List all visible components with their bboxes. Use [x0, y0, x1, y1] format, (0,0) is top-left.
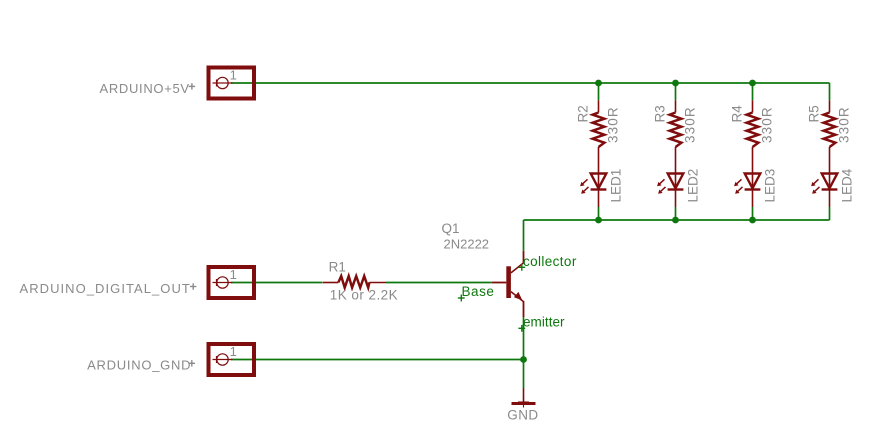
wire collector vertical	[523, 220, 525, 251]
junction bottom rail branch 2	[672, 217, 679, 224]
svg-text:LED4: LED4	[840, 168, 855, 202]
svg-text:emitter: emitter	[523, 314, 565, 329]
svg-text:330R: 330R	[683, 106, 698, 143]
pin 1 label of ARDUINO+5V	[230, 68, 237, 83]
wire branch 3 top stub	[752, 83, 754, 100]
label R1 name	[329, 259, 346, 274]
resistor R4	[747, 100, 759, 173]
pin label emitter	[518, 314, 565, 331]
resistor R1	[323, 276, 386, 288]
pin label collector	[518, 254, 576, 271]
LED LED1	[580, 174, 606, 208]
wire branch 2 top stub	[675, 83, 677, 100]
svg-text:330R: 330R	[760, 106, 775, 143]
wire gnd net: pad to junction	[231, 359, 524, 361]
svg-text:collector: collector	[523, 254, 577, 269]
net label ARDUINO+5V	[99, 81, 195, 96]
junction top rail branch 2	[672, 80, 679, 87]
net label ARDUINO_GND	[87, 358, 195, 373]
svg-text:330R: 330R	[837, 106, 852, 143]
pin label Base	[458, 284, 495, 301]
wire base net: pad to R1	[231, 282, 322, 284]
LED LED2	[657, 174, 683, 208]
wire branch 3 bottom stub	[752, 207, 754, 220]
svg-text:LED2: LED2	[686, 169, 701, 203]
junction bottom rail branch 3	[749, 217, 756, 224]
LED LED4	[811, 174, 837, 208]
svg-text:R5: R5	[807, 105, 822, 122]
pin 1 label of ARDUINO_GND	[230, 344, 237, 359]
junction top rail branch 1	[595, 80, 602, 87]
LED LED3	[734, 174, 760, 208]
connector pad ARDUINO+5V	[209, 68, 255, 99]
junction bottom rail branch 1	[595, 217, 602, 224]
junction top rail branch 3	[749, 80, 756, 87]
ground GND symbol	[512, 388, 536, 408]
svg-text:Q1: Q1	[442, 221, 460, 236]
label LED3	[763, 169, 778, 203]
svg-text:R3: R3	[653, 105, 668, 122]
label R5 name	[807, 105, 822, 122]
svg-text:1K or 2.2K: 1K or 2.2K	[330, 288, 398, 303]
label LED2	[686, 169, 701, 203]
resistor R5	[824, 100, 836, 173]
svg-text:1: 1	[230, 344, 237, 359]
svg-text:330R: 330R	[606, 106, 621, 143]
label GND	[507, 408, 538, 423]
pin 1 label of ARDUINO_DIGITAL_OUT	[230, 267, 237, 282]
svg-text:Base: Base	[462, 284, 495, 299]
label R3 value 330R	[683, 106, 698, 143]
svg-text:ARDUINO_DIGITAL_OUT: ARDUINO_DIGITAL_OUT	[19, 281, 190, 296]
resistor R3	[670, 100, 682, 173]
wire +5V top rail	[231, 82, 830, 84]
label R1 value "1K or 2.2K"	[330, 288, 398, 303]
wire branch 4 top stub	[829, 83, 831, 100]
wire branch 4 bottom stub	[829, 207, 831, 220]
label R5 value 330R	[837, 106, 852, 143]
label LED1	[609, 169, 624, 203]
wire emitter vertical	[523, 317, 525, 388]
label R2 value 330R	[606, 106, 621, 143]
label Q1 name	[442, 221, 460, 236]
connector pad ARDUINO_GND	[209, 344, 255, 375]
svg-text:LED3: LED3	[763, 169, 778, 203]
label R2 name	[576, 105, 591, 122]
label Q1 value 2N2222	[444, 237, 490, 252]
label R4 value 330R	[760, 106, 775, 143]
svg-text:GND: GND	[507, 408, 538, 423]
net label ARDUINO_DIGITAL_OUT	[19, 281, 196, 296]
wire collector rail (bottom)	[524, 219, 830, 221]
label LED4	[840, 168, 855, 202]
connector pad ARDUINO_DIGITAL_OUT	[209, 267, 255, 298]
svg-text:1: 1	[230, 267, 237, 282]
svg-text:2N2222: 2N2222	[444, 237, 490, 252]
resistor R2	[593, 100, 605, 173]
junction emitter/gnd node	[520, 356, 527, 363]
svg-text:R4: R4	[730, 105, 745, 123]
svg-text:R1: R1	[329, 259, 346, 274]
svg-text:ARDUINO+5V: ARDUINO+5V	[99, 81, 189, 96]
wire branch 2 bottom stub	[675, 207, 677, 220]
transistor Q1 (NPN 2N2222)	[492, 251, 524, 317]
svg-text:1: 1	[230, 68, 237, 83]
svg-text:LED1: LED1	[609, 169, 624, 203]
svg-text:R2: R2	[576, 105, 591, 122]
svg-text:ARDUINO_GND: ARDUINO_GND	[87, 358, 191, 373]
wire branch 1 top stub	[598, 83, 600, 100]
label R4 name	[730, 105, 745, 123]
wire branch 1 bottom stub	[598, 207, 600, 220]
label R3 name	[653, 105, 668, 122]
wire base net: R1 to Q1 base	[386, 282, 492, 284]
